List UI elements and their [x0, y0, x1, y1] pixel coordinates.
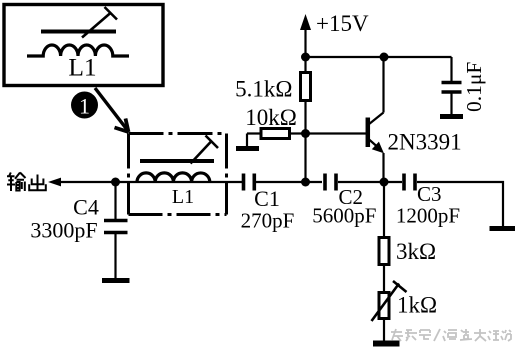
svg-text:3300pF: 3300pF — [30, 218, 97, 243]
label 1kΩ — [397, 293, 437, 318]
svg-text:5600pF: 5600pF — [312, 204, 376, 228]
resistor 5.1k — [301, 57, 311, 132]
label 270pF — [241, 209, 295, 233]
capacitor 0.1uF — [442, 57, 462, 115]
label 10kΩ — [245, 105, 297, 130]
resistor 3k — [379, 186, 389, 292]
node D (supply tee) — [301, 53, 310, 62]
svg-text:5.1kΩ: 5.1kΩ — [235, 77, 292, 102]
output arrow — [48, 178, 61, 187]
wire: top rail — [306, 56, 452, 58]
wire: C3 to right ground — [417, 182, 503, 227]
label C2 — [339, 185, 364, 209]
resistor 10k — [247, 129, 304, 139]
resistor 1k (adjustable) — [372, 281, 407, 341]
ground (C4) — [102, 278, 130, 283]
label L1 (callout) — [68, 53, 96, 82]
ground (right) — [490, 226, 515, 231]
node B (C1-C2 junction / bias divider tap) — [301, 178, 310, 187]
inductor L1 (tank coil, adjustable) — [137, 136, 218, 183]
node E (collector tee) — [380, 53, 389, 62]
wire: C2 to C3 — [338, 181, 402, 183]
svg-text:+15V: +15V — [316, 11, 369, 36]
callout box — [4, 5, 163, 86]
svg-text:1kΩ: 1kΩ — [397, 293, 437, 318]
node A (output/C4 junction) — [111, 178, 120, 187]
svg-text:C3: C3 — [417, 182, 442, 206]
svg-text:0.1μF: 0.1μF — [462, 62, 486, 112]
callout arrow — [95, 88, 129, 132]
label C1 — [254, 186, 280, 211]
shield box (dash-dot) — [129, 134, 227, 215]
label 0.1μF — [462, 62, 486, 112]
ground (1k) — [373, 341, 400, 347]
svg-text:2N3391: 2N3391 — [388, 130, 462, 155]
watermark 头条号 / 潇道夫评说 — [391, 329, 511, 341]
supply +15V arrow — [300, 14, 311, 57]
svg-text:3kΩ: 3kΩ — [396, 239, 436, 264]
label C3 — [417, 182, 442, 206]
label 1200pF — [396, 204, 460, 228]
svg-text:C4: C4 — [73, 195, 99, 220]
node C (emitter junction) — [380, 178, 389, 187]
label 5600pF — [312, 204, 376, 228]
wire: base node down to C1-C2 node — [304, 134, 306, 183]
capacitor C2 — [325, 174, 336, 191]
svg-text:10kΩ: 10kΩ — [245, 105, 297, 130]
label 输出 (output, hand-drawn glyphs) — [7, 173, 46, 192]
svg-text:C1: C1 — [254, 186, 280, 211]
node F (base tee) — [301, 129, 310, 138]
ground (10k bias) — [236, 134, 259, 149]
capacitor C4 — [104, 184, 128, 278]
label +15V — [316, 11, 369, 36]
capacitor C1 — [244, 174, 255, 191]
label 3kΩ — [396, 239, 436, 264]
label C4 — [73, 195, 99, 220]
svg-text:1200pF: 1200pF — [396, 204, 460, 228]
label L1 (tank) — [172, 186, 194, 208]
svg-text:1: 1 — [79, 94, 90, 119]
label 2N3391 — [388, 130, 462, 155]
inductor icon in callout box (adjustable coil) — [27, 7, 129, 56]
label 5.1kΩ — [235, 77, 292, 102]
svg-text:270pF: 270pF — [241, 209, 295, 233]
svg-text:L1: L1 — [172, 186, 194, 208]
svg-text:L1: L1 — [68, 53, 96, 82]
callout marker 1 — [71, 92, 98, 119]
ground (0.1uF) — [440, 114, 463, 119]
label 3300pF — [30, 218, 97, 243]
transistor Q1 2N3391 — [306, 57, 384, 182]
wire: main output line — [59, 181, 242, 183]
capacitor C3 — [404, 174, 415, 191]
wire: C1 to C2 — [256, 181, 322, 183]
